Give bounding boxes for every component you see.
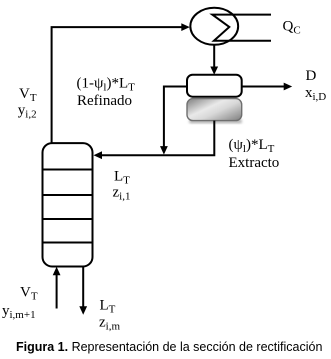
refinado wire: drum left down to liquid return	[164, 87, 187, 147]
svg-text:(1-ψl)*LT: (1-ψl)*LT	[77, 75, 136, 93]
arrowhead into drum	[210, 67, 218, 75]
svg-text:QC: QC	[283, 19, 301, 37]
svg-text:Extracto: Extracto	[229, 155, 280, 171]
condenser coolant coil	[212, 15, 271, 41]
svg-text:D: D	[306, 68, 317, 84]
svg-text:zi,1: zi,1	[113, 185, 131, 203]
column C1	[43, 143, 93, 266]
tray 4	[43, 242, 93, 244]
liquid outlet wire (bottom)	[82, 267, 84, 308]
condenser E1	[190, 8, 238, 45]
tray 2	[43, 194, 93, 196]
svg-text:Figura 1. Representación de la: Figura 1. Representación de la sección d…	[16, 340, 322, 354]
distillate wire D	[242, 86, 285, 88]
svg-text:yi,m+1: yi,m+1	[2, 303, 36, 321]
wire: condenser to reflux drum	[213, 45, 215, 70]
arrowhead D	[284, 83, 293, 91]
decanter shadow	[189, 119, 242, 124]
wire: vapor line from column top to condenser	[52, 27, 183, 143]
svg-text:xi,D: xi,D	[305, 85, 326, 103]
vapor inlet wire (bottom)	[56, 272, 58, 309]
tray 3	[43, 218, 93, 220]
svg-text:VT: VT	[19, 86, 37, 104]
svg-text:(ψl)*LT: (ψl)*LT	[229, 137, 275, 155]
arrowhead into column	[94, 151, 103, 159]
arrowhead liquid outlet	[79, 306, 87, 315]
decanter lower phase (extract, gradient)	[187, 99, 242, 121]
arrowhead into condenser	[181, 23, 190, 31]
svg-text:zi,m: zi,m	[99, 315, 120, 333]
tray 1	[43, 169, 93, 171]
extracto wire: decanter bottom to column	[101, 121, 214, 156]
arrowhead refinado (down onto junction)	[160, 146, 168, 155]
svg-text:LT: LT	[100, 298, 116, 316]
svg-text:VT: VT	[20, 285, 38, 303]
arrowhead vapor inlet	[53, 267, 61, 276]
svg-text:Refinado: Refinado	[77, 93, 132, 109]
svg-text:yi,2: yi,2	[18, 102, 37, 120]
reflux drum upper phase (refined)	[187, 75, 242, 97]
